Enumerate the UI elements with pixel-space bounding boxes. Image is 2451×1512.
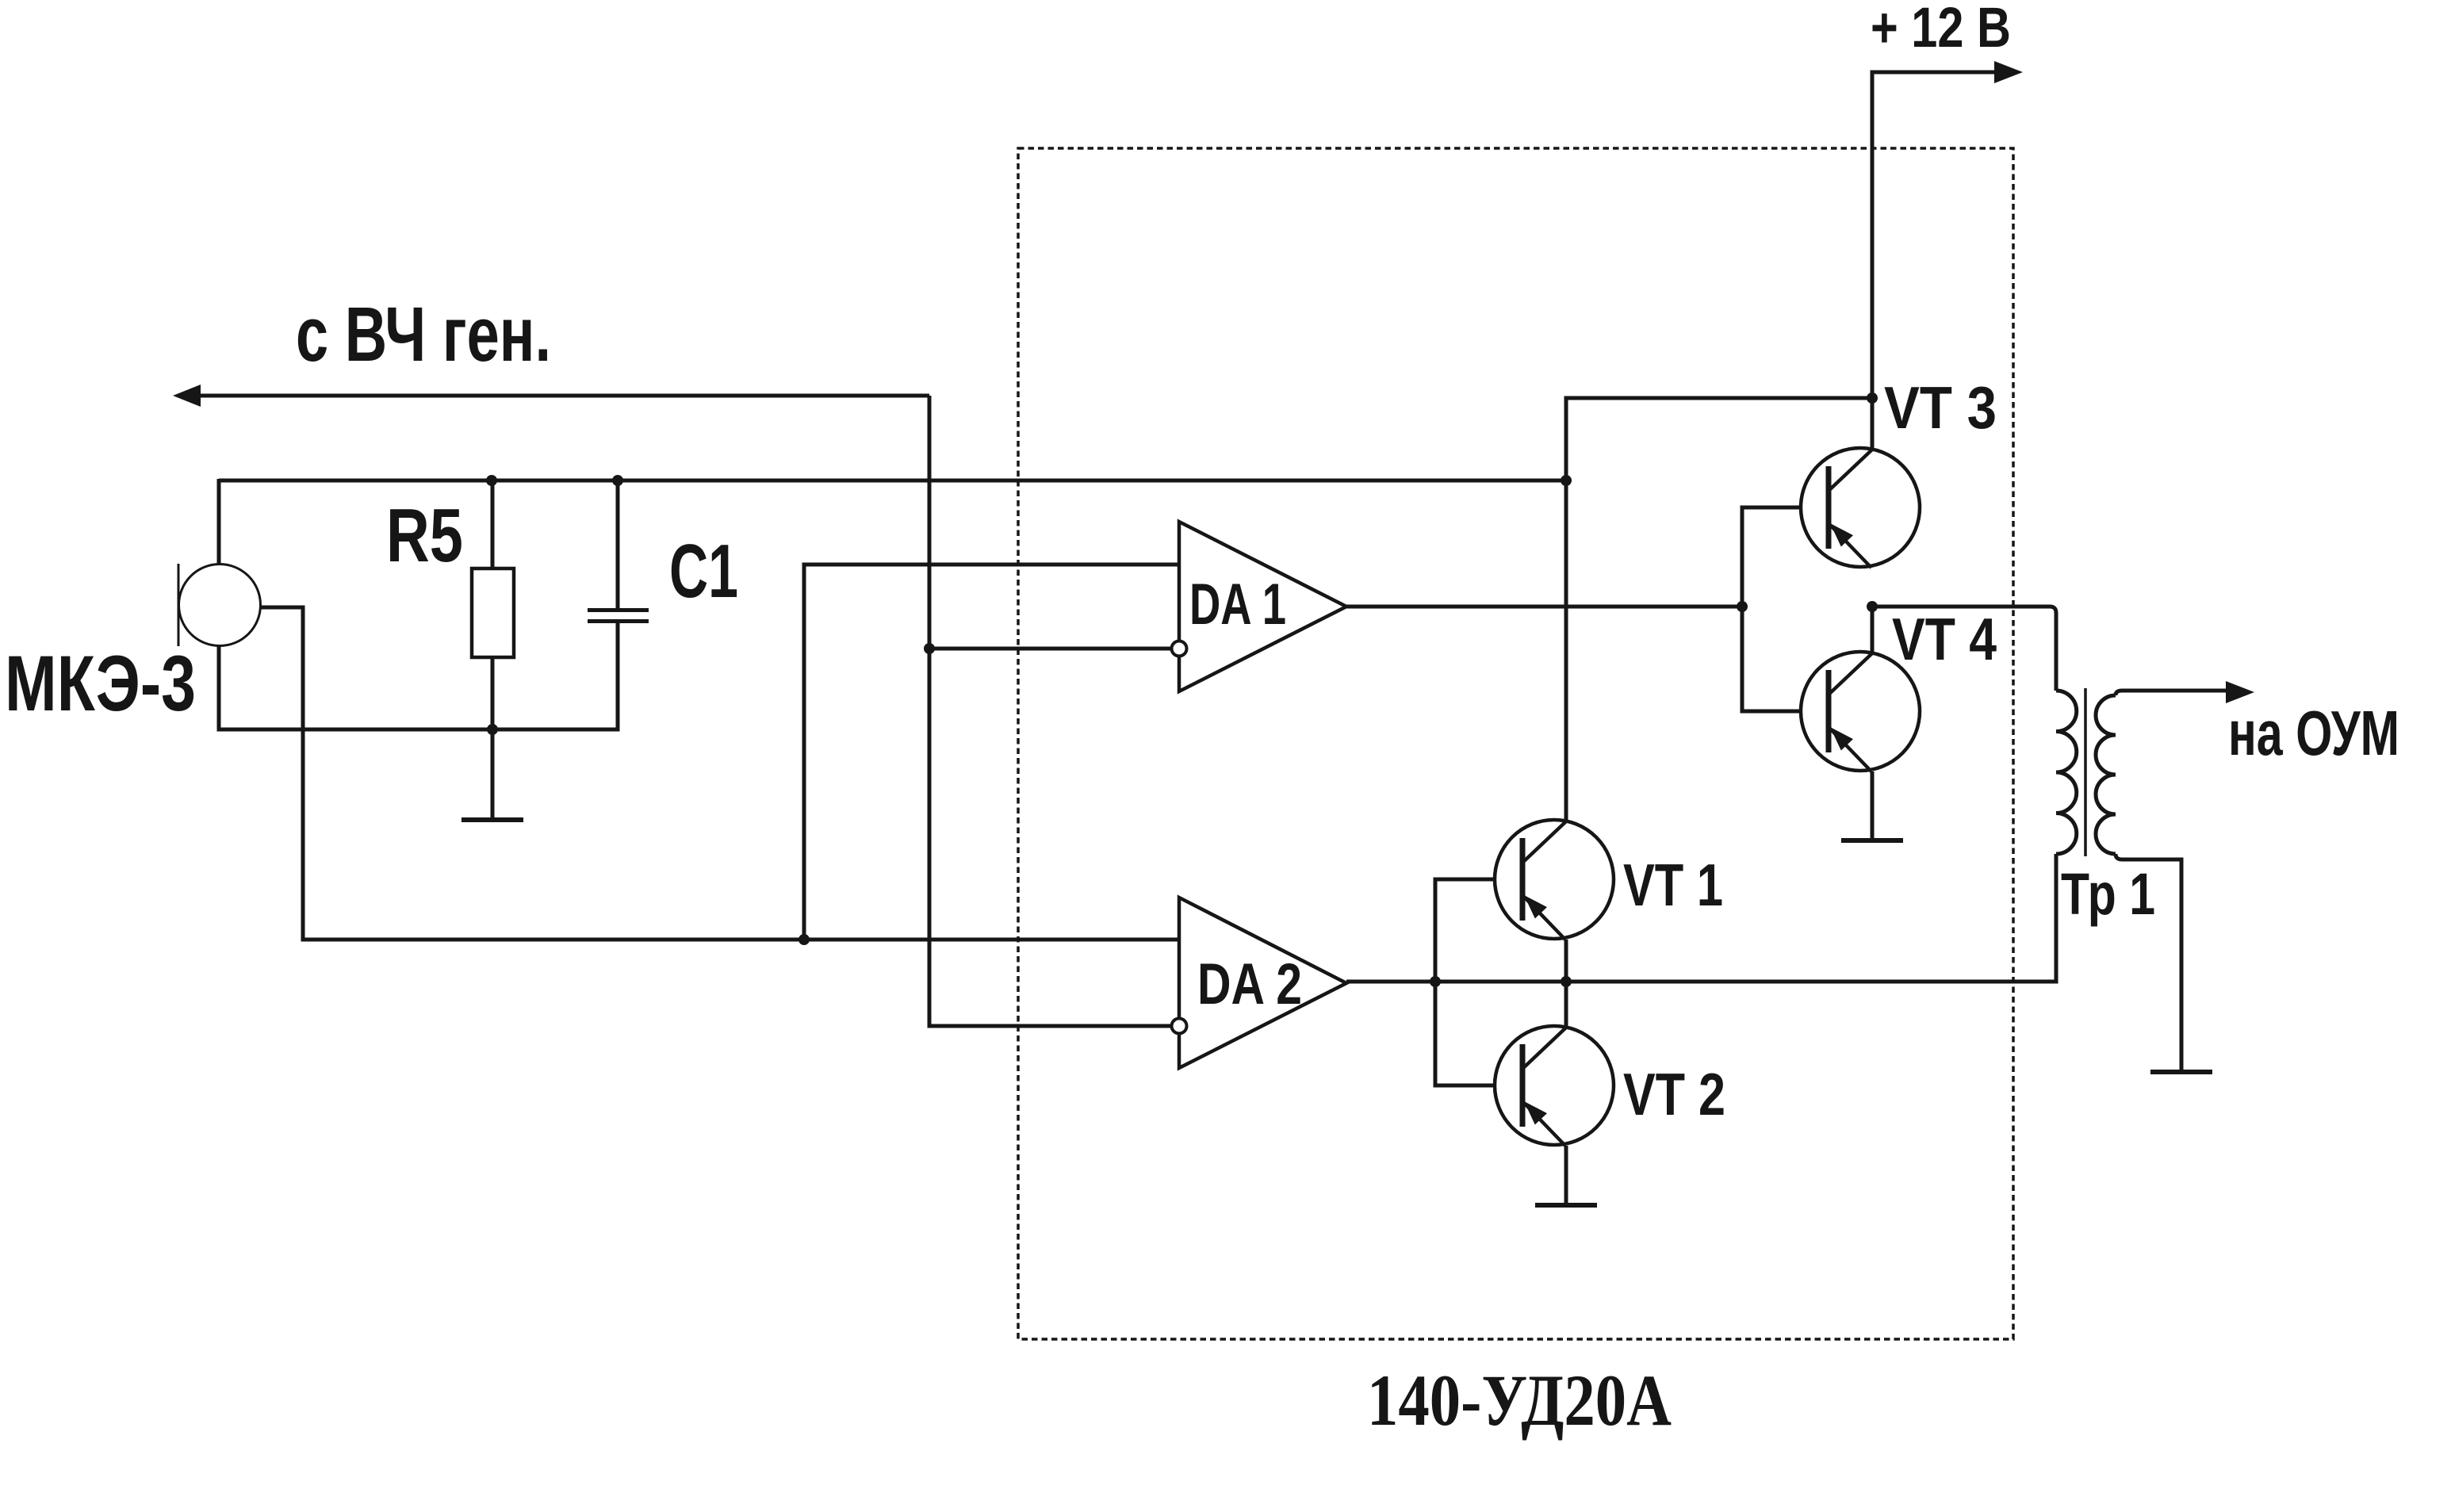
- svg-text:VT 4: VT 4: [1892, 606, 1997, 672]
- svg-text:C1: C1: [669, 529, 738, 614]
- svg-text:+ 12 В: + 12 В: [1871, 0, 2011, 59]
- svg-text:DA 1: DA 1: [1189, 572, 1286, 637]
- svg-text:Тр 1: Тр 1: [2061, 861, 2155, 927]
- svg-text:VT 3: VT 3: [1884, 374, 1997, 441]
- svg-text:VT 1: VT 1: [1623, 852, 1723, 918]
- svg-text:140-УД20А: 140-УД20А: [1367, 1360, 1672, 1441]
- svg-text:R5: R5: [386, 493, 463, 578]
- svg-text:на ОУМ: на ОУМ: [2228, 698, 2399, 768]
- svg-text:с ВЧ ген.: с ВЧ ген.: [296, 291, 551, 377]
- svg-text:МКЭ-3: МКЭ-3: [5, 639, 196, 727]
- svg-text:VT 2: VT 2: [1623, 1061, 1725, 1127]
- svg-text:DA 2: DA 2: [1197, 952, 1302, 1016]
